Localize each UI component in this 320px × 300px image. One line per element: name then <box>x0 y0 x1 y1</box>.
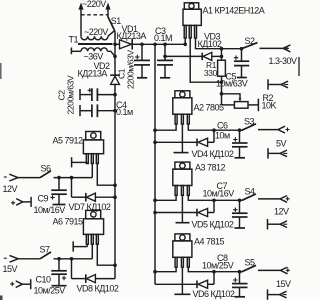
connector X7 plus 15V <box>281 267 290 274</box>
svg-text:C9: C9 <box>38 194 49 204</box>
pin A1 adjust <box>190 38 221 82</box>
node dot VD7 vert <box>70 176 74 180</box>
node dot bus rail <box>153 43 157 47</box>
node dot C7 top <box>238 199 242 203</box>
node dot VD5 vert <box>212 199 216 203</box>
svg-text:1.3-30V: 1.3-30V <box>269 56 298 66</box>
svg-text:Т1: Т1 <box>69 35 79 45</box>
node dot R2 wiper tie <box>220 92 224 96</box>
capacitor C8 <box>232 272 248 297</box>
svg-text:0.1м: 0.1м <box>116 107 133 117</box>
svg-text:VD4 КД102: VD4 КД102 <box>192 149 234 159</box>
switch S7 <box>40 252 51 259</box>
transformer T1 secondary winding <box>71 48 115 57</box>
node dot rail A3 input <box>153 199 157 203</box>
svg-text:КД213А: КД213А <box>78 69 108 79</box>
pin A1 input <box>184 38 186 44</box>
regulator A2 7805 package <box>173 91 192 124</box>
diode VD2 КД213А <box>110 75 120 84</box>
connector X11 minus 15V <box>4 255 18 262</box>
capacitor C3 <box>157 44 173 78</box>
svg-text:C10: C10 <box>36 275 52 285</box>
connector X6 minus <box>268 219 288 229</box>
scan artifact right edge <box>298 57 300 76</box>
svg-text:S6: S6 <box>41 164 52 174</box>
wire negative rail <box>114 84 116 279</box>
wire S5 to jack <box>258 269 281 271</box>
connector X2 minus <box>268 79 288 89</box>
pin A5 output <box>91 164 93 178</box>
node dot C9 top <box>57 176 61 180</box>
transformer T1 primary winding <box>81 31 114 40</box>
svg-text:VD5 КД102: VD5 КД102 <box>192 219 234 229</box>
potentiometer R2 10K <box>222 94 259 111</box>
svg-text:2200м/63V: 2200м/63V <box>65 75 75 114</box>
switch S1 <box>108 16 122 31</box>
diode VD4 КД102 <box>155 130 214 146</box>
regulator A5 7912 package <box>83 132 103 164</box>
pin A3 output <box>188 195 243 200</box>
regulator A6 7915 package <box>83 210 103 244</box>
capacitor C5 <box>234 49 249 78</box>
wire mains left arrow <box>78 3 83 37</box>
transformer core <box>78 43 113 45</box>
svg-text:A5 7912: A5 7912 <box>53 136 84 146</box>
capacitor C4 <box>80 104 115 117</box>
svg-text:S5: S5 <box>245 258 256 268</box>
svg-text:12V: 12V <box>274 207 289 217</box>
svg-text:A2 7805: A2 7805 <box>194 103 225 113</box>
node dot AC winding <box>113 55 117 59</box>
svg-text:~220V: ~220V <box>82 0 106 9</box>
wire S6 output row <box>18 177 92 179</box>
svg-text:5V: 5V <box>276 139 287 149</box>
pin A5 input <box>97 164 115 186</box>
diode VD6 КД102 <box>155 272 214 289</box>
diode VD1 КД213А <box>115 39 142 50</box>
svg-text:0.1М: 0.1М <box>154 33 172 43</box>
capacitor C2 <box>80 88 115 101</box>
node dot VD8 vert <box>70 257 74 261</box>
pin A2 input <box>155 124 176 130</box>
pin A5 ground <box>72 157 88 167</box>
svg-text:2200м/63V: 2200м/63V <box>125 50 135 89</box>
svg-text:C6: C6 <box>217 120 228 130</box>
node dot C6 top <box>238 128 242 132</box>
svg-text:10м/25V: 10м/25V <box>202 260 234 270</box>
node dot rail VD7 <box>113 195 117 199</box>
transformer T1 label <box>69 35 79 45</box>
node dot C4 rail <box>113 109 117 113</box>
scan artifact left edge <box>0 63 2 79</box>
capacitor C1 <box>134 44 150 78</box>
wire dashed tap link <box>81 14 108 16</box>
svg-text:VD8 КД102: VD8 КД102 <box>77 284 119 294</box>
pin A3 ground <box>176 195 190 222</box>
switch S4 <box>242 194 256 200</box>
regulator A3 7812 package <box>173 162 192 195</box>
node dot VD4 vert <box>212 128 216 132</box>
mains label ~220V top <box>82 0 106 9</box>
regulator A4 7815 package <box>173 234 192 267</box>
svg-text:10м: 10м <box>215 130 230 140</box>
node dot C8 top <box>238 270 242 274</box>
primary tap label ~220V <box>84 27 108 37</box>
svg-text:КД102: КД102 <box>198 39 222 49</box>
svg-text:10м/16V: 10м/16V <box>203 188 235 198</box>
wire S7 output row <box>18 258 92 260</box>
svg-text:A4 7815: A4 7815 <box>194 237 225 247</box>
pin A4 ground <box>174 267 190 294</box>
svg-text:А1 КР142ЕН12А: А1 КР142ЕН12А <box>203 6 265 16</box>
node dot rail A2 input <box>153 128 157 132</box>
connector X10 plus <box>11 197 31 207</box>
pin A1 output <box>196 38 242 49</box>
svg-text:S2: S2 <box>245 36 256 46</box>
node dot rail A5 input <box>113 183 117 187</box>
pin A6 ground <box>73 241 87 251</box>
scan artifact corner <box>0 296 3 300</box>
svg-text:10K: 10K <box>262 101 277 111</box>
switch S5 <box>242 265 256 271</box>
node dot AC VD1 <box>113 43 117 47</box>
capacitor C9 <box>51 178 67 205</box>
svg-text:~36V: ~36V <box>84 51 104 61</box>
svg-text:S7: S7 <box>40 245 51 255</box>
svg-text:S1: S1 <box>111 16 122 26</box>
svg-text:330: 330 <box>204 68 218 78</box>
svg-text:VD6 КД102: VD6 КД102 <box>193 289 235 299</box>
node dot adjust <box>220 80 224 84</box>
svg-text:15V: 15V <box>3 264 18 274</box>
pin A6 input <box>97 244 115 265</box>
svg-text:15V: 15V <box>276 279 291 289</box>
node dot bus A1 input <box>183 43 187 47</box>
capacitor C7 <box>232 200 248 228</box>
pin A6 output <box>91 244 93 259</box>
connector X3 plus 5V <box>278 126 290 133</box>
connector X5 plus 12V <box>280 196 290 203</box>
node dot output R1 top <box>220 47 224 51</box>
node dot bus C1 <box>140 43 144 47</box>
pin A4 output <box>188 267 243 272</box>
node dot C3 tap <box>163 55 167 59</box>
svg-text:10м/16V: 10м/16V <box>34 205 66 215</box>
svg-text:10м/63V: 10м/63V <box>216 79 248 89</box>
switch S6 <box>40 171 51 178</box>
diode VD8 КД102 <box>72 259 116 283</box>
node AC vertical <box>114 31 116 76</box>
connector X4 minus <box>268 148 287 158</box>
wire S2 to jack <box>260 47 284 49</box>
svg-text:КД213А: КД213А <box>117 31 147 41</box>
capacitor C6 <box>232 130 248 158</box>
diode VD7 КД102 <box>72 178 116 202</box>
svg-text:~220V: ~220V <box>84 27 108 37</box>
wire S3 to jack <box>258 129 278 131</box>
connector X1 plus 1.3-30V <box>283 45 290 52</box>
svg-text:S4: S4 <box>245 187 256 197</box>
node dot rail VD5 <box>153 211 157 215</box>
connector X8 minus <box>268 289 287 299</box>
diode VD5 КД102 <box>155 200 214 216</box>
node dot bus C3 <box>163 43 167 47</box>
svg-text:S3: S3 <box>244 117 255 127</box>
wire raw plus bus <box>142 43 185 45</box>
resistor R1 330 <box>218 49 226 105</box>
connector X9 minus 12V <box>4 174 18 181</box>
svg-text:А3 7812: А3 7812 <box>195 163 226 173</box>
pin A3 input <box>155 195 176 200</box>
node dot rail A6 input <box>113 263 117 267</box>
wire S4 to jack <box>258 198 280 200</box>
pin A2 output <box>188 124 243 130</box>
wire main positive rail <box>154 44 156 284</box>
switch S3 <box>242 124 256 130</box>
pin A2 ground <box>174 124 189 153</box>
capacitor C10 <box>51 259 67 286</box>
node dot C2 rail <box>113 93 117 97</box>
pin A4 input <box>155 267 176 272</box>
svg-text:10м/25V: 10м/25V <box>34 285 66 295</box>
wire mains right arrow <box>105 3 110 17</box>
svg-text:12V: 12V <box>3 184 18 194</box>
svg-text:А6 7915: А6 7915 <box>53 217 84 227</box>
node dot rail VD4 <box>153 141 157 145</box>
node dot VD3 anode <box>220 55 224 59</box>
node dot C10 top <box>57 257 61 261</box>
connector X12 plus <box>10 279 31 289</box>
node dot rail A4 input <box>153 270 157 274</box>
switch S2 <box>240 43 258 51</box>
node dot VD6 vert <box>212 270 216 274</box>
secondary label ~36V <box>84 51 104 61</box>
diode VD3 КД102 <box>165 52 222 60</box>
regulator A1 КР142ЕН12А package <box>183 3 201 38</box>
